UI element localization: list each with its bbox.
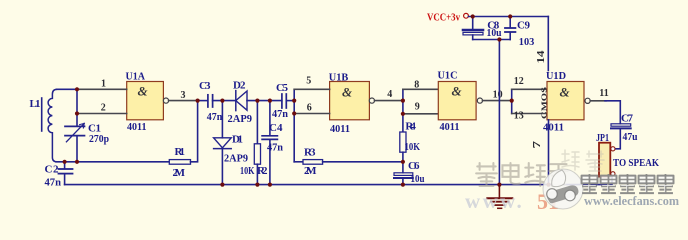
svg-text:VCC+3v: VCC+3v [427, 11, 460, 23]
svg-text:4011: 4011 [543, 122, 564, 134]
svg-text:C9: C9 [517, 20, 531, 32]
capacitor C7 47u polarized [611, 113, 638, 149]
svg-text:10K: 10K [405, 141, 421, 153]
svg-text:U1A: U1A [126, 71, 146, 83]
wire ground bottom rail [65, 177, 612, 185]
svg-text:C6: C6 [408, 160, 420, 172]
wire R3 to U1C input node [323, 161, 403, 163]
wire R1 right to node 3 [191, 101, 198, 162]
pin 13 [512, 113, 547, 115]
wire node3 to C3 [198, 100, 208, 102]
connector JP1 [596, 132, 659, 177]
op-amp U1B (4011 NAND gate) [329, 72, 375, 135]
pin 3 output wire [169, 100, 198, 102]
pin 4 output wire [375, 100, 403, 102]
svg-text:9: 9 [415, 102, 420, 113]
svg-text:C5: C5 [276, 82, 289, 94]
svg-text:R4: R4 [405, 121, 416, 133]
capacitor C1 (variable) 270p [65, 114, 109, 162]
wire pin11 to C7 [605, 101, 620, 124]
capacitor C6 10u polarized [394, 160, 425, 185]
pin 6 [294, 113, 329, 115]
svg-text:U1C: U1C [438, 70, 458, 82]
svg-text:5: 5 [306, 76, 311, 87]
resistor R3 2M [294, 147, 322, 178]
svg-text:47n: 47n [272, 108, 288, 120]
svg-text:&: & [342, 85, 352, 100]
svg-text:4011: 4011 [127, 121, 147, 133]
svg-text:&: & [138, 84, 148, 99]
svg-text:&: & [560, 85, 570, 100]
svg-text:2M: 2M [173, 167, 186, 179]
watermark 1: gray script characters [476, 163, 568, 186]
wire left input vertical node [76, 89, 78, 113]
svg-text:R2: R2 [257, 165, 268, 177]
svg-text:8: 8 [414, 80, 419, 91]
wire U1B input vertical node down to R3 [293, 89, 295, 162]
ground [487, 185, 512, 209]
op-amp U1C (4011 NAND gate) [438, 70, 483, 133]
resistor R1 2M [169, 146, 190, 179]
svg-text:6: 6 [307, 103, 312, 114]
pin 1 [77, 88, 127, 90]
svg-text:3: 3 [181, 90, 186, 101]
pin 8 [403, 88, 438, 90]
svg-text:47u: 47u [623, 131, 638, 143]
svg-text:7: 7 [532, 141, 543, 149]
capacitor C2 47n [45, 162, 73, 189]
svg-text:C3: C3 [199, 80, 211, 92]
svg-text:103: 103 [519, 36, 535, 48]
svg-text:U1D: U1D [546, 70, 566, 82]
svg-text:2: 2 [101, 102, 106, 113]
svg-text:10u: 10u [411, 173, 425, 185]
svg-text:47n: 47n [267, 142, 283, 154]
wire tank bottom rail y=161.8 [56, 161, 169, 163]
svg-text:TO SPEAK: TO SPEAK [613, 157, 659, 169]
pin 5 [294, 88, 329, 90]
svg-text:U1B: U1B [329, 72, 349, 84]
svg-text:L1: L1 [30, 98, 41, 110]
wire D2 to C5 [247, 100, 282, 102]
svg-text:C7: C7 [621, 113, 634, 125]
capacitor C8 10u polarized [463, 17, 502, 40]
svg-text:&: & [452, 84, 462, 99]
watermark 2: elecfans logo [543, 169, 583, 209]
inductor L1 [30, 89, 58, 162]
svg-text:CMOS: CMOS [541, 87, 549, 119]
svg-text:47n: 47n [45, 177, 62, 189]
svg-text:R3: R3 [304, 147, 316, 159]
svg-text:C2: C2 [45, 164, 60, 176]
svg-text:4: 4 [387, 89, 392, 100]
pin 12 [512, 88, 547, 90]
capacitor C3 47n [199, 80, 222, 123]
svg-text:R1: R1 [175, 146, 186, 158]
pin 10 output wire [483, 100, 512, 102]
wire U1D input vertical node [511, 89, 513, 113]
svg-text:www.: www. [465, 189, 524, 213]
diode D2 2AP9 [228, 80, 253, 126]
svg-text:www.elecfans.com: www.elecfans.com [584, 193, 679, 208]
svg-text:1: 1 [101, 78, 106, 89]
resistor R4 10K vertical [400, 121, 421, 173]
svg-text:2M: 2M [304, 165, 317, 177]
svg-text:4011: 4011 [440, 121, 460, 133]
svg-text:JP1: JP1 [596, 132, 609, 144]
svg-text:10: 10 [493, 90, 503, 101]
wire pin1 net from L1 top to U1A [57, 88, 78, 90]
pin 14 wire from VCC rail [547, 17, 549, 71]
capacitor C9 103 [505, 17, 535, 49]
resistor R2 10K vertical [240, 101, 268, 185]
wire C8/C9 bottom [473, 39, 511, 41]
wire decoupling node to ground rail [498, 40, 500, 185]
wire VCC rail [469, 16, 549, 18]
capacitor C4 47n vertical [262, 101, 283, 185]
svg-text:4011: 4011 [330, 123, 350, 135]
pin 2 [77, 113, 127, 115]
wire C3 to D2 [213, 100, 236, 102]
VCC+3v supply terminal [427, 11, 468, 23]
svg-text:10K: 10K [240, 165, 255, 177]
capacitor C5 47n [272, 82, 289, 120]
svg-text:270p: 270p [89, 133, 109, 145]
op-amp U1A (4011 NAND gate) [126, 71, 169, 134]
svg-text:11: 11 [599, 88, 608, 99]
pin 7 wire to ground rail [548, 120, 550, 185]
svg-text:2AP9: 2AP9 [228, 113, 253, 125]
svg-text:14: 14 [536, 51, 547, 64]
svg-text:2AP9: 2AP9 [224, 153, 248, 165]
diode D1 2AP9 vertical [214, 101, 249, 185]
svg-text:C4: C4 [269, 122, 283, 134]
svg-text:47n: 47n [207, 111, 223, 123]
wire U1C input node vertical [402, 89, 404, 132]
wire C5 to U1B input node [286, 100, 294, 102]
svg-text:10u: 10u [487, 27, 502, 39]
svg-text:D2: D2 [233, 80, 246, 92]
pin 9 [403, 113, 438, 115]
op-amp U1D (4011 NAND gate) [541, 70, 591, 133]
watermark 2: big outlined characters [582, 174, 674, 193]
svg-text:13: 13 [514, 110, 524, 121]
svg-text:12: 12 [514, 76, 524, 87]
svg-text:D1: D1 [232, 134, 243, 146]
pin 11 output wire [590, 100, 606, 102]
